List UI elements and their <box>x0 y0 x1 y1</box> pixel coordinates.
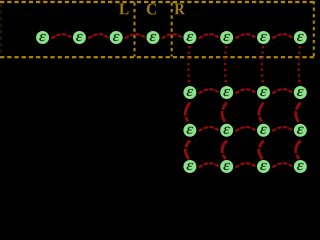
site chain 3 onsite energy eps <box>110 31 123 44</box>
site grid r1c1 onsite energy eps <box>183 86 196 99</box>
hopping arc grid col 1 rows 1-2 <box>185 103 190 124</box>
label L <box>119 3 128 14</box>
site grid r1c3 onsite energy eps <box>257 86 270 99</box>
site grid r3c2 onsite energy eps <box>220 160 233 173</box>
label R <box>175 3 185 14</box>
hopping arc chain to grid col 2 <box>225 46 226 86</box>
site grid r2c2 onsite energy eps <box>220 124 233 137</box>
region box right edge <box>313 1 315 57</box>
hopping arc chain 6-7 <box>236 34 256 38</box>
hopping arc grid row 2 cols 1-2 <box>199 127 219 131</box>
hopping arc grid row 1 cols 2-3 <box>236 89 256 93</box>
hopping arc grid col 3 rows 1-2 <box>259 103 264 124</box>
hopping arc grid row 2 cols 3-4 <box>272 127 292 131</box>
site grid r3c3 onsite energy eps <box>257 160 270 173</box>
hopping arc chain to grid col 4 <box>299 46 300 86</box>
site chain 4 onsite energy eps <box>147 31 160 44</box>
region box top edge <box>0 1 316 3</box>
hopping arc chain 2-3 <box>88 34 108 38</box>
site grid r2c3 onsite energy eps <box>257 124 270 137</box>
site chain 6 onsite energy eps <box>220 31 233 44</box>
hopping arc grid row 3 cols 3-4 <box>272 163 292 167</box>
divider L|C <box>133 2 135 56</box>
site grid r3c4 onsite energy eps <box>294 160 307 173</box>
divider C|R <box>171 2 173 56</box>
hopping arc grid col 4 rows 2-3 <box>296 141 301 160</box>
site chain 5 onsite energy eps <box>183 31 196 44</box>
hopping arc chain to grid col 1 <box>188 46 189 86</box>
site grid r1c4 onsite energy eps <box>294 86 307 99</box>
hopping arc chain to grid col 3 <box>262 46 263 86</box>
hopping arc chain 4-5 <box>162 34 182 38</box>
label C <box>147 3 156 14</box>
site chain 7 onsite energy eps <box>257 31 270 44</box>
site grid r2c1 onsite energy eps <box>183 124 196 137</box>
region box bottom edge <box>0 56 316 58</box>
site chain 1 onsite energy eps <box>36 31 49 44</box>
site grid r3c1 onsite energy eps <box>183 160 196 173</box>
site chain 8 onsite energy eps <box>294 31 307 44</box>
hopping arc grid row 1 cols 1-2 <box>199 89 219 93</box>
hopping arc grid col 4 rows 1-2 <box>296 103 301 124</box>
hopping arc grid row 3 cols 2-3 <box>236 163 256 167</box>
region box left edge (faint) <box>0 4 2 55</box>
hopping arc grid col 2 rows 1-2 <box>222 103 227 124</box>
hopping arc chain 5-6 <box>199 34 219 38</box>
site chain 2 onsite energy eps <box>73 31 86 44</box>
hopping arc grid col 3 rows 2-3 <box>259 141 264 160</box>
hopping arc grid row 1 cols 3-4 <box>272 89 292 93</box>
hopping arc grid row 3 cols 1-2 <box>199 163 219 167</box>
hopping arc chain 3-4 <box>125 34 145 38</box>
hopping arc grid row 2 cols 2-3 <box>236 127 256 131</box>
hopping arc chain 7-8 <box>272 34 292 38</box>
hopping arc grid col 2 rows 2-3 <box>222 141 227 160</box>
site grid r1c2 onsite energy eps <box>220 86 233 99</box>
hopping arc chain 1-2 <box>51 34 71 38</box>
hopping arc grid col 1 rows 2-3 <box>185 141 190 160</box>
site grid r2c4 onsite energy eps <box>294 124 307 137</box>
